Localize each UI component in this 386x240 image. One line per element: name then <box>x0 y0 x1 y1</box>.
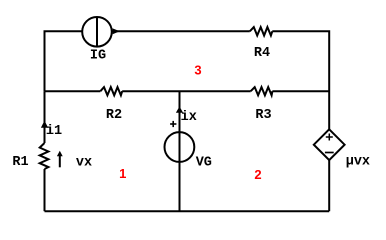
svg-text:2: 2 <box>254 167 261 182</box>
wire right vertical lower <box>328 160 330 212</box>
resistor R4 <box>250 27 272 35</box>
wire top-right segment <box>113 30 250 32</box>
svg-text:R2: R2 <box>106 108 122 123</box>
svg-text:ix: ix <box>181 110 197 125</box>
minus sign in diamond <box>325 152 334 154</box>
plus sign at VG <box>170 121 176 127</box>
plus sign in diamond <box>326 134 333 141</box>
svg-text:IG: IG <box>90 49 106 64</box>
wire top-right corner down <box>272 31 329 130</box>
svg-text:μvx: μvx <box>346 154 370 169</box>
voltage source VG circle <box>165 132 195 162</box>
ix current arrowhead <box>176 106 183 112</box>
svg-text:R4: R4 <box>254 46 270 61</box>
resistor R3 <box>251 87 273 95</box>
svg-text:3: 3 <box>194 63 201 78</box>
wire VG branch <box>179 91 181 211</box>
current source IG circle <box>82 17 112 47</box>
dependent source u*vx diamond <box>314 129 345 160</box>
svg-text:vx: vx <box>76 156 92 171</box>
svg-text:R3: R3 <box>255 108 271 123</box>
wire top-left segment <box>45 31 82 91</box>
IG arrowhead <box>113 28 120 34</box>
wire bottom <box>45 210 330 212</box>
current source IG bar <box>96 17 98 46</box>
svg-text:VG: VG <box>196 155 212 170</box>
wire middle center <box>122 90 251 92</box>
resistor R2 <box>100 87 122 95</box>
wire left vertical upper <box>44 91 46 143</box>
svg-text:1: 1 <box>119 166 126 181</box>
svg-text:R1: R1 <box>12 155 28 170</box>
wire left vertical lower <box>44 169 46 211</box>
svg-text:i1: i1 <box>46 124 62 139</box>
wire middle left <box>45 90 101 92</box>
i1 current arrowhead <box>41 121 48 128</box>
wire middle right <box>272 90 329 92</box>
resistor R1 <box>40 143 49 169</box>
vx reference arrow <box>57 151 63 168</box>
